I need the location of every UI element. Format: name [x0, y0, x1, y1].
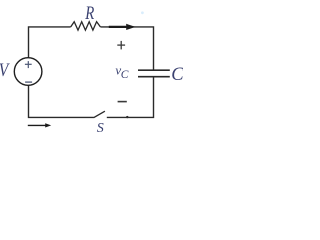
plus sign inside source [25, 61, 32, 68]
minus sign inside source [25, 81, 32, 83]
resistor R (zigzag body) [71, 22, 101, 30]
wire: capacitor bottom plate down to switch right terminal (bottom-right corner) [107, 77, 154, 118]
wire: resistor to capacitor top plate (top-right corner) [100, 27, 153, 70]
label vC (capacitor voltage) [115, 62, 128, 81]
junction dot on bottom wire [126, 116, 128, 118]
svg-text:S: S [97, 121, 104, 136]
wire: switch left terminal to source bottom terminal (bottom-left corner) [29, 85, 94, 117]
wire: source top terminal up and right to resistor (top-left corner) [29, 27, 71, 58]
svg-text:C: C [121, 69, 129, 81]
current arrow below bottom wire [28, 123, 51, 127]
svg-text:V: V [0, 60, 10, 81]
minus sign (capacitor voltage polarity) [118, 101, 127, 103]
current arrow on top wire [109, 24, 136, 30]
plus sign (capacitor voltage polarity) [117, 41, 125, 50]
switch S blade (open, tilted up) [94, 111, 105, 118]
faint blue speck artifact [141, 11, 144, 14]
voltage source V (circle) [14, 58, 42, 86]
svg-text:C: C [171, 65, 183, 85]
svg-text:R: R [84, 2, 94, 23]
capacitor C (two plates) [138, 70, 170, 77]
